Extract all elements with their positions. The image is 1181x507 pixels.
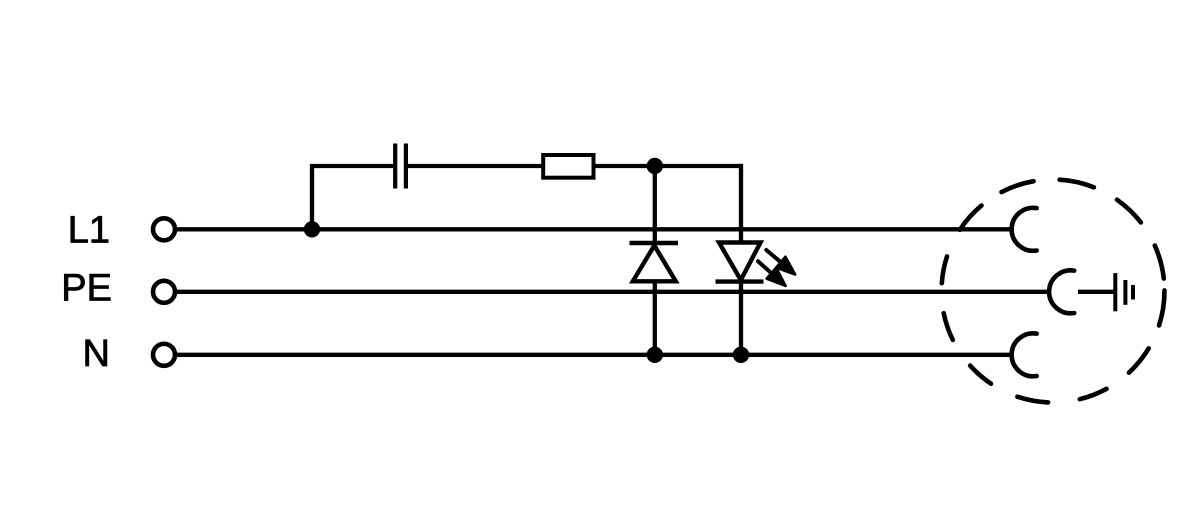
LED arrow 1 — [766, 250, 795, 275]
wire capacitor to resistor — [408, 164, 543, 168]
wire resistor to corner — [596, 164, 742, 168]
wire L1 — [176, 227, 1013, 231]
svg-text:PE: PE — [61, 268, 112, 310]
plug outline (dashed circle) — [942, 180, 1165, 403]
contact N (socket arc) — [1012, 333, 1037, 376]
terminal N — [153, 344, 175, 366]
wire PE — [176, 290, 1051, 294]
svg-text:N: N — [83, 333, 110, 375]
svg-text:L1: L1 — [68, 210, 110, 252]
wire LED branch (vertical with corner) — [739, 166, 741, 355]
node on L1 (junction dot) — [304, 221, 320, 237]
contact PE (socket arc) — [1049, 270, 1074, 313]
LED arrow 2 — [758, 261, 786, 286]
node on N (LED branch) — [733, 347, 749, 363]
terminal L1 — [153, 218, 175, 240]
node on N (diode branch) — [647, 347, 663, 363]
node top junction — [647, 158, 663, 174]
terminal PE — [153, 281, 175, 303]
resistor R1 — [543, 155, 593, 178]
wire riser from L1 node to top rail — [312, 166, 393, 229]
wire diode branch (vertical) — [653, 166, 657, 355]
earth/ground symbol — [1115, 273, 1133, 311]
capacitor C1 — [395, 144, 406, 189]
pin PE (to earth) — [1078, 290, 1114, 294]
wire N — [176, 353, 1013, 357]
contact L1 (socket arc) — [1012, 208, 1037, 251]
LED V2 (pointing down) — [716, 243, 764, 282]
diode V1 (pointing up) — [630, 243, 679, 281]
